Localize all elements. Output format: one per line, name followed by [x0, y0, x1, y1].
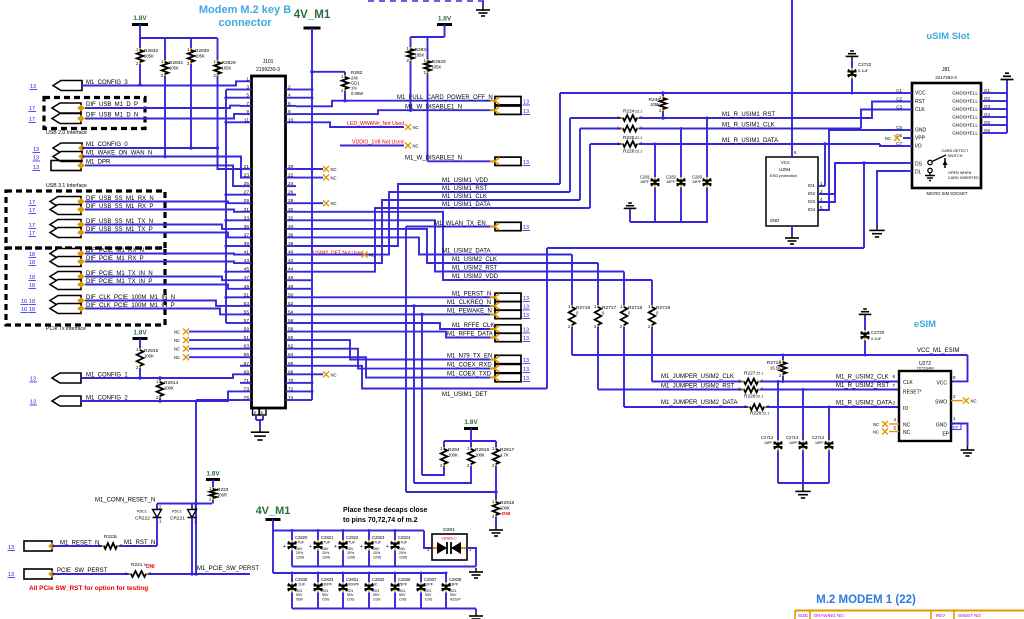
svg-text:SWITCH: SWITCH — [948, 154, 963, 158]
svg-text:M1_R_USIM1_DATA: M1_R_USIM1_DATA — [722, 138, 778, 144]
svg-text:62: 62 — [288, 344, 294, 350]
svg-text:C2713: C2713 — [786, 435, 799, 440]
svg-text:20%: 20% — [347, 551, 355, 555]
svg-text:C2836: C2836 — [398, 577, 411, 582]
svg-text:NC: NC — [903, 430, 911, 436]
svg-text:43: 43 — [244, 258, 250, 264]
svg-text:C2837: C2837 — [424, 577, 437, 582]
svg-text:22.1: 22.1 — [635, 136, 642, 140]
svg-text:50V: 50V — [373, 593, 380, 597]
svg-text:M1_USIM2_VDD: M1_USIM2_VDD — [452, 274, 499, 280]
svg-text:C0G: C0G — [322, 598, 330, 602]
svg-text:M1_COEX_RXD: M1_COEX_RXD — [447, 363, 492, 369]
svg-text:NC: NC — [174, 355, 180, 360]
svg-text:68: 68 — [288, 369, 294, 375]
svg-text:DL: DL — [915, 170, 922, 176]
svg-text:D281: D281 — [443, 527, 455, 533]
svg-text:72: 72 — [288, 386, 294, 392]
svg-text:100K: 100K — [500, 506, 510, 511]
svg-text:2: 2 — [288, 85, 291, 91]
svg-text:M1_USIM2_CLK: M1_USIM2_CLK — [452, 257, 497, 263]
svg-text:1.8V: 1.8V — [438, 16, 452, 23]
svg-text:M1_USIM1_DATA: M1_USIM1_DATA — [442, 202, 490, 208]
svg-text:R221: R221 — [131, 562, 143, 568]
svg-text:R229: R229 — [750, 411, 762, 417]
svg-text:20%: 20% — [296, 551, 304, 555]
svg-text:MICRO SIM SOCKET: MICRO SIM SOCKET — [927, 191, 968, 196]
svg-text:65: 65 — [244, 352, 250, 358]
svg-text:C2720: C2720 — [871, 330, 885, 335]
svg-text:4: 4 — [288, 93, 291, 99]
svg-text:G5: G5 — [984, 120, 991, 125]
svg-text:GNDSHELL: GNDSHELL — [952, 99, 978, 105]
svg-text:M1_PERST_N: M1_PERST_N — [452, 291, 491, 297]
svg-text:1206: 1206 — [296, 556, 304, 560]
svg-text:M.2 MODEM 1 (22): M.2 MODEM 1 (22) — [816, 594, 916, 606]
svg-text:55: 55 — [244, 309, 250, 315]
svg-text:47: 47 — [244, 275, 250, 281]
svg-text:44: 44 — [288, 267, 294, 273]
svg-text:105K: 105K — [169, 66, 179, 71]
svg-text:16PF: 16PF — [666, 180, 676, 184]
svg-text:DNI: DNI — [502, 511, 511, 517]
svg-text:NC: NC — [331, 201, 337, 206]
svg-text:M1_RST_N: M1_RST_N — [124, 540, 155, 546]
svg-text:1206: 1206 — [399, 556, 407, 560]
svg-text:M1_PCIE_SW_PERST: M1_PCIE_SW_PERST — [197, 566, 259, 572]
svg-text:M1_R_USIM1_RST: M1_R_USIM1_RST — [722, 112, 775, 118]
svg-text:M1_W_DISABLE1_N: M1_W_DISABLE1_N — [405, 105, 462, 111]
svg-text:M1_CONN_RESET_N: M1_CONN_RESET_N — [95, 498, 155, 504]
svg-text:VCC: VCC — [781, 160, 790, 165]
svg-text:49: 49 — [244, 284, 250, 290]
svg-text:16PF: 16PF — [640, 180, 650, 184]
svg-text:0.1uF: 0.1uF — [871, 336, 882, 341]
svg-text:DS: DS — [915, 162, 923, 168]
svg-text:C3: C3 — [896, 105, 902, 110]
svg-text:GND: GND — [936, 423, 948, 429]
svg-text:M1_R_USIM2_CLK: M1_R_USIM2_CLK — [836, 375, 889, 381]
svg-text:IO: IO — [903, 406, 908, 412]
svg-text:22.1: 22.1 — [756, 395, 763, 399]
svg-text:+: + — [386, 544, 389, 550]
svg-text:11: 11 — [244, 117, 249, 123]
svg-text:37: 37 — [244, 232, 250, 238]
svg-text:NC: NC — [174, 338, 180, 343]
svg-text:VCC: VCC — [915, 91, 926, 97]
svg-text:100K: 100K — [475, 453, 485, 458]
svg-text:M1_USIM1_DET: M1_USIM1_DET — [442, 392, 488, 398]
svg-text:M1_USIM1_CLK: M1_USIM1_CLK — [442, 194, 487, 200]
svg-text:NC: NC — [331, 176, 337, 181]
svg-text:100K: 100K — [164, 386, 174, 391]
svg-text:100K: 100K — [144, 354, 154, 359]
svg-text:USIM2_DET Not Used: USIM2_DET Not Used — [313, 251, 363, 257]
svg-text:Place these decaps close: Place these decaps close — [343, 507, 428, 514]
svg-text:1206: 1206 — [373, 556, 381, 560]
svg-text:All PCIe SW_RST for option for: All PCIe SW_RST for option for testing — [29, 585, 148, 592]
svg-text:GNDSHELL: GNDSHELL — [952, 131, 978, 137]
svg-text:VDDIO_1V8 Not Used: VDDIO_1V8 Not Used — [352, 140, 404, 146]
svg-text:GND: GND — [770, 218, 779, 223]
svg-text:M1_USIM2_RST: M1_USIM2_RST — [452, 266, 498, 272]
svg-text:uSIM Slot: uSIM Slot — [926, 31, 970, 42]
svg-text:4.7K: 4.7K — [500, 453, 509, 458]
svg-text:31: 31 — [244, 207, 250, 213]
svg-text:IO4: IO4 — [808, 207, 816, 212]
svg-text:20%: 20% — [399, 551, 407, 555]
svg-text:R228: R228 — [744, 394, 756, 400]
svg-text:36: 36 — [288, 232, 294, 238]
svg-text:C2832: C2832 — [372, 577, 385, 582]
svg-text:R226: R226 — [623, 149, 635, 155]
svg-text:48: 48 — [288, 284, 294, 290]
svg-text:50V: 50V — [425, 593, 432, 597]
svg-text:G3: G3 — [984, 104, 991, 109]
svg-text:75: 75 — [244, 395, 250, 401]
svg-text:R5C1: R5C1 — [137, 510, 147, 514]
svg-text:C2823: C2823 — [372, 535, 385, 540]
svg-text:to pins 70,72,74 of m.2: to pins 70,72,74 of m.2 — [343, 517, 418, 524]
svg-text:NC: NC — [873, 422, 879, 427]
svg-text:61: 61 — [244, 335, 250, 341]
svg-text:73: 73 — [244, 386, 250, 392]
svg-text:16PF: 16PF — [692, 180, 702, 184]
svg-text:20: 20 — [288, 164, 294, 170]
svg-text:M1_COEX_TXD: M1_COEX_TXD — [447, 372, 492, 378]
svg-text:54: 54 — [288, 309, 294, 315]
svg-text:1000PF: 1000PF — [346, 583, 360, 587]
svg-text:M1_R_USIM2_DATA: M1_R_USIM2_DATA — [836, 401, 892, 407]
svg-text:0.1uF: 0.1uF — [858, 68, 869, 73]
svg-text:32: 32 — [288, 215, 294, 221]
svg-text:63: 63 — [244, 344, 250, 350]
svg-text:10PF: 10PF — [424, 583, 434, 587]
svg-text:41: 41 — [244, 250, 250, 256]
svg-text:24: 24 — [288, 181, 294, 187]
svg-text:C2712: C2712 — [761, 435, 774, 440]
svg-text:G4: G4 — [984, 112, 991, 117]
svg-text:105K: 105K — [432, 65, 442, 70]
svg-text:NC: NC — [174, 330, 180, 335]
svg-text:1206: 1206 — [347, 556, 355, 560]
svg-text:NC: NC — [369, 253, 375, 258]
svg-text:C2822: C2822 — [346, 535, 359, 540]
svg-text:M1_N79_TX_EN: M1_N79_TX_EN — [447, 354, 492, 360]
svg-text:G2: G2 — [984, 96, 991, 101]
svg-text:C2831: C2831 — [346, 577, 359, 582]
svg-text:47UF: 47UF — [295, 541, 305, 545]
svg-text:57: 57 — [244, 318, 250, 324]
svg-text:66: 66 — [288, 361, 294, 367]
svg-text:60: 60 — [288, 335, 294, 341]
svg-text:16PF: 16PF — [815, 441, 824, 445]
svg-text:C0G: C0G — [399, 598, 407, 602]
svg-text:51: 51 — [244, 292, 250, 298]
svg-text:C283: C283 — [692, 175, 703, 180]
svg-text:59: 59 — [244, 327, 250, 333]
svg-text:1.8V: 1.8V — [133, 330, 147, 337]
svg-text:53: 53 — [244, 301, 250, 307]
svg-text:22: 22 — [288, 173, 294, 179]
svg-text:71: 71 — [244, 378, 250, 384]
svg-text:VPP: VPP — [915, 136, 926, 142]
svg-text:0.06W: 0.06W — [351, 91, 363, 96]
svg-text:47UF: 47UF — [346, 541, 356, 545]
svg-text:C282: C282 — [666, 175, 677, 180]
svg-text:58: 58 — [288, 327, 294, 333]
svg-text:M1_CLKREQ_N: M1_CLKREQ_N — [447, 300, 491, 306]
svg-text:M1_JUMPER_USIM2_DATA: M1_JUMPER_USIM2_DATA — [661, 400, 737, 406]
svg-text:34: 34 — [288, 224, 294, 230]
svg-text:40: 40 — [288, 250, 294, 256]
svg-text:eSIM: eSIM — [914, 319, 936, 330]
svg-text:connector: connector — [218, 17, 272, 29]
svg-text:C1: C1 — [896, 88, 902, 93]
svg-text:38: 38 — [288, 241, 294, 247]
svg-text:1.8V: 1.8V — [206, 471, 220, 478]
svg-text:NC: NC — [331, 372, 337, 377]
svg-text:1.8V: 1.8V — [464, 419, 478, 426]
svg-text:4V_M1: 4V_M1 — [294, 9, 331, 21]
svg-text:6: 6 — [288, 101, 291, 107]
svg-text:M1_JUMPER_USIM2_CLK: M1_JUMPER_USIM2_CLK — [661, 374, 734, 380]
svg-text:C2: C2 — [896, 97, 902, 102]
svg-text:26: 26 — [288, 190, 294, 196]
svg-text:GNDSHELL: GNDSHELL — [952, 115, 978, 121]
svg-text:M1_R_USIM2_RST: M1_R_USIM2_RST — [836, 383, 889, 389]
svg-text:C7: C7 — [896, 141, 902, 146]
svg-text:4V_M1: 4V_M1 — [256, 505, 291, 517]
svg-text:50V: 50V — [347, 593, 354, 597]
svg-text:7272S4M: 7272S4M — [916, 366, 933, 371]
svg-text:NC: NC — [413, 144, 419, 149]
svg-text:REV: REV — [936, 613, 945, 618]
svg-text:NC: NC — [971, 399, 977, 404]
svg-text:35: 35 — [244, 224, 250, 230]
svg-text:22.1: 22.1 — [635, 110, 642, 114]
svg-text:OPEN WHEN: OPEN WHEN — [948, 171, 972, 175]
svg-text:64: 64 — [288, 352, 294, 358]
svg-text:V8082LC: V8082LC — [441, 537, 457, 541]
svg-text:21: 21 — [244, 164, 250, 170]
svg-text:47UF: 47UF — [398, 541, 408, 545]
svg-text:25: 25 — [244, 181, 250, 187]
svg-text:C2833: C2833 — [321, 577, 334, 582]
svg-text:C0G: C0G — [373, 598, 381, 602]
svg-text:1: 1 — [246, 76, 249, 82]
svg-text:69: 69 — [244, 369, 250, 375]
svg-text:5: 5 — [246, 93, 249, 99]
svg-text:7: 7 — [246, 101, 249, 107]
svg-text:70: 70 — [288, 378, 294, 384]
svg-text:33PF: 33PF — [449, 583, 459, 587]
svg-text:50V: 50V — [296, 593, 303, 597]
svg-text:C0G: C0G — [425, 598, 433, 602]
svg-text:45: 45 — [244, 267, 250, 273]
svg-text:33: 33 — [244, 215, 250, 221]
svg-text:22.1: 22.1 — [762, 412, 769, 416]
svg-text:CR221: CR221 — [170, 516, 185, 522]
svg-text:VCC_M1_ESIM: VCC_M1_ESIM — [917, 348, 959, 354]
svg-text:NC: NC — [372, 583, 378, 587]
svg-text:IO2: IO2 — [808, 191, 816, 196]
svg-text:67: 67 — [244, 361, 250, 367]
svg-text:105K: 105K — [195, 54, 205, 59]
svg-text:52: 52 — [288, 301, 294, 307]
svg-text:3: 3 — [246, 85, 249, 91]
svg-text:X6R: X6R — [296, 598, 303, 602]
svg-text:C2722: C2722 — [858, 62, 872, 67]
svg-text:CARD INSERTED: CARD INSERTED — [948, 176, 979, 180]
svg-text:G6: G6 — [984, 128, 991, 133]
svg-text:M1_WLAN_TX_EN: M1_WLAN_TX_EN — [434, 221, 486, 227]
svg-text:NC: NC — [885, 136, 891, 141]
svg-text:NC: NC — [413, 125, 419, 130]
svg-text:C281: C281 — [640, 175, 651, 180]
svg-text:DRAWING NO.: DRAWING NO. — [814, 613, 845, 618]
svg-text:NC: NC — [174, 347, 180, 352]
svg-text:29: 29 — [244, 198, 250, 204]
svg-text:50: 50 — [288, 292, 294, 298]
svg-text:2199230-3: 2199230-3 — [256, 67, 280, 73]
svg-text:105K: 105K — [650, 102, 660, 107]
svg-text:M1_RFFE_DATA: M1_RFFE_DATA — [447, 332, 493, 338]
svg-text:M1_USIM1_VDD: M1_USIM1_VDD — [442, 178, 489, 184]
svg-text:56: 56 — [288, 318, 294, 324]
svg-text:15PF: 15PF — [398, 583, 408, 587]
svg-text:CR222: CR222 — [135, 516, 150, 522]
svg-text:330PF: 330PF — [321, 583, 333, 587]
svg-text:M1_USIM1_RST: M1_USIM1_RST — [442, 186, 488, 192]
svg-text:M1_RFFE_CLK: M1_RFFE_CLK — [452, 323, 494, 329]
svg-text:100R: 100R — [217, 493, 227, 498]
svg-text:R227: R227 — [744, 371, 756, 377]
svg-text:M1_PEWAKE_N: M1_PEWAKE_N — [447, 308, 492, 314]
svg-text:50V: 50V — [450, 593, 457, 597]
svg-text:SIZE: SIZE — [798, 613, 808, 618]
svg-text:R224: R224 — [623, 109, 635, 115]
svg-text:CLK: CLK — [915, 107, 925, 113]
svg-text:GNDSHELL: GNDSHELL — [952, 123, 978, 129]
svg-text:10: 10 — [288, 117, 294, 123]
svg-text:47UF: 47UF — [372, 541, 382, 545]
svg-text:1206: 1206 — [322, 556, 330, 560]
svg-text:A22uP: A22uP — [450, 598, 461, 602]
svg-text:20%: 20% — [373, 551, 381, 555]
svg-text:22.1: 22.1 — [756, 372, 763, 376]
svg-text:28: 28 — [288, 198, 294, 204]
svg-text:CARD DETECT: CARD DETECT — [941, 149, 969, 153]
svg-text:GNDSHELL: GNDSHELL — [952, 107, 978, 113]
svg-text:CLK: CLK — [903, 380, 913, 386]
svg-text:USB 2.0 Interface: USB 2.0 Interface — [46, 130, 87, 136]
svg-text:39: 39 — [244, 241, 250, 247]
svg-text:GNDSHELL: GNDSHELL — [952, 91, 978, 97]
svg-text:EP: EP — [942, 432, 949, 438]
svg-text:0: 0 — [115, 535, 117, 539]
svg-text:I/O: I/O — [915, 144, 922, 150]
svg-text:46: 46 — [288, 275, 294, 281]
svg-text:USB 3.1 Interface: USB 3.1 Interface — [46, 183, 87, 189]
svg-text:22.1: 22.1 — [635, 150, 642, 154]
svg-text:C0G: C0G — [347, 598, 355, 602]
svg-text:SWO: SWO — [935, 400, 947, 406]
svg-text:8: 8 — [288, 109, 291, 115]
svg-text:RST: RST — [915, 99, 925, 105]
svg-text:27: 27 — [244, 190, 250, 196]
svg-text:DNI: DNI — [146, 564, 155, 570]
svg-text:16PF: 16PF — [764, 441, 773, 445]
svg-text:47UF: 47UF — [321, 541, 331, 545]
svg-text:C2714: C2714 — [812, 435, 825, 440]
svg-text:+: + — [309, 544, 312, 550]
svg-text:C2821: C2821 — [321, 535, 334, 540]
svg-text:1%: 1% — [351, 86, 357, 91]
svg-text:PCIe Tx interface: PCIe Tx interface — [46, 326, 86, 332]
svg-text:G1: G1 — [984, 88, 991, 93]
svg-text:2217283-3: 2217283-3 — [935, 75, 957, 80]
svg-text:IO1: IO1 — [808, 183, 816, 188]
svg-text:20%: 20% — [322, 551, 330, 555]
svg-text:NC: NC — [903, 423, 911, 429]
svg-text:100K: 100K — [448, 453, 458, 458]
svg-text:NC: NC — [873, 430, 879, 435]
svg-text:M1_USIM2_DATA: M1_USIM2_DATA — [442, 249, 490, 255]
svg-text:EP: EP — [953, 425, 959, 430]
svg-text:LED_WWAN#_Not Used: LED_WWAN#_Not Used — [347, 121, 404, 127]
svg-text:RESET*: RESET* — [903, 390, 922, 396]
svg-text:9: 9 — [246, 109, 249, 115]
svg-text:IO3: IO3 — [808, 199, 816, 204]
svg-text:VCC: VCC — [936, 381, 947, 387]
svg-text:1.8V: 1.8V — [133, 15, 147, 22]
svg-text:SHEET NO.: SHEET NO. — [958, 613, 982, 618]
svg-text:50V: 50V — [399, 593, 406, 597]
svg-text:J101: J101 — [263, 59, 274, 65]
svg-text:105K: 105K — [415, 53, 425, 58]
svg-text:GND: GND — [915, 128, 927, 134]
svg-text:+: + — [283, 544, 286, 550]
svg-text:+: + — [360, 544, 363, 550]
svg-text:ESD protection: ESD protection — [770, 173, 797, 178]
svg-text:74: 74 — [288, 395, 294, 401]
svg-text:M1_W_DISABLE2_N: M1_W_DISABLE2_N — [405, 156, 462, 162]
svg-text:30: 30 — [288, 207, 294, 213]
svg-text:C2820: C2820 — [295, 535, 308, 540]
svg-text:C2830: C2830 — [295, 577, 308, 582]
svg-text:C2838: C2838 — [449, 577, 462, 582]
svg-text:J81: J81 — [942, 67, 950, 73]
svg-text:+: + — [334, 544, 337, 550]
svg-text:50V: 50V — [322, 593, 329, 597]
svg-text:NC: NC — [331, 167, 337, 172]
svg-text:42: 42 — [288, 258, 294, 264]
svg-text:105K: 105K — [222, 66, 232, 71]
svg-text:M1_R_USIM1_CLK: M1_R_USIM1_CLK — [722, 123, 775, 129]
svg-text:Modem M.2 key B: Modem M.2 key B — [199, 4, 291, 16]
svg-text:16.5K: 16.5K — [770, 366, 781, 371]
svg-text:0.1UF: 0.1UF — [295, 583, 306, 587]
svg-text:C2824: C2824 — [398, 535, 411, 540]
svg-text:R5C1: R5C1 — [172, 510, 182, 514]
svg-text:105K: 105K — [144, 54, 154, 59]
svg-text:16PF: 16PF — [789, 441, 798, 445]
